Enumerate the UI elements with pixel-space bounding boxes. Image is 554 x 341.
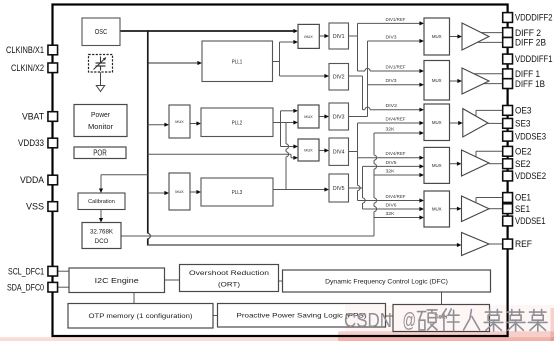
svg-text:Calibration: Calibration <box>88 199 115 205</box>
svg-text:MUX: MUX <box>304 148 313 152</box>
svg-text:DIFF 2B: DIFF 2B <box>515 37 546 48</box>
svg-text:@: @ <box>403 310 417 332</box>
svg-text:SDA_DFC0: SDA_DFC0 <box>7 281 44 292</box>
svg-text:VBAT: VBAT <box>22 111 44 122</box>
svg-text:I2C Engine: I2C Engine <box>95 276 139 285</box>
svg-text:CSDN: CSDN <box>344 310 392 332</box>
svg-text:DIV4/REF: DIV4/REF <box>386 194 406 199</box>
svg-text:CLKIN/X2: CLKIN/X2 <box>11 62 44 73</box>
svg-text:DIV6: DIV6 <box>386 203 398 208</box>
svg-text:SCL_DFC1: SCL_DFC1 <box>8 265 44 276</box>
svg-text:DIV3: DIV3 <box>386 35 398 40</box>
svg-text:POR: POR <box>93 149 107 158</box>
svg-text:MUX: MUX <box>304 35 313 39</box>
svg-text:MUX: MUX <box>175 120 184 124</box>
svg-text:SE2: SE2 <box>515 158 531 169</box>
svg-text:OTP memory (1 configuration): OTP memory (1 configuration) <box>89 313 193 320</box>
svg-text:MUX: MUX <box>432 207 442 212</box>
svg-text:VDDSE2: VDDSE2 <box>515 170 546 181</box>
svg-text:REF: REF <box>515 238 532 249</box>
svg-text:DIV2: DIV2 <box>333 75 345 81</box>
svg-text:OE1: OE1 <box>515 192 531 203</box>
svg-text:MUX: MUX <box>432 163 442 168</box>
svg-text:DIV4/REF: DIV4/REF <box>386 117 406 122</box>
svg-text:(ORT): (ORT) <box>218 282 240 289</box>
svg-text:VDDSE1: VDDSE1 <box>515 215 546 226</box>
svg-text:VDDDIFF1: VDDDIFF1 <box>515 53 553 64</box>
svg-text:VDDA: VDDA <box>20 174 45 185</box>
svg-text:DIV5: DIV5 <box>333 186 345 192</box>
svg-text:MUX: MUX <box>304 115 313 119</box>
svg-text:VSS: VSS <box>26 201 44 212</box>
svg-text:SE1: SE1 <box>515 203 530 214</box>
svg-text:32K: 32K <box>386 169 395 174</box>
svg-text:DIFF 1B: DIFF 1B <box>515 78 545 89</box>
svg-text:MUX: MUX <box>432 78 442 83</box>
svg-text:PLL1: PLL1 <box>232 59 243 65</box>
svg-text:VDD33: VDD33 <box>18 137 44 148</box>
svg-text:VDDSE3: VDDSE3 <box>515 130 546 141</box>
svg-text:DIV1/REF: DIV1/REF <box>386 65 406 70</box>
svg-text:Overshoot Reduction: Overshoot Reduction <box>189 270 269 277</box>
svg-text:32.768K: 32.768K <box>90 229 114 236</box>
svg-text:DIV1: DIV1 <box>333 34 345 40</box>
svg-text:DIV4/REF: DIV4/REF <box>386 151 406 156</box>
svg-text:DIV2: DIV2 <box>386 103 398 108</box>
svg-text:CLKINB/X1: CLKINB/X1 <box>6 44 44 55</box>
svg-text:MUX: MUX <box>432 120 442 125</box>
svg-text:OE3: OE3 <box>515 105 532 116</box>
svg-text:PLL3: PLL3 <box>232 190 243 196</box>
svg-text:DIV5: DIV5 <box>386 160 398 165</box>
svg-text:Monitor: Monitor <box>88 122 113 131</box>
svg-text:DIV3: DIV3 <box>333 114 345 120</box>
svg-text:DIV3: DIV3 <box>386 78 398 83</box>
svg-text:OSC: OSC <box>95 27 108 36</box>
svg-text:32K: 32K <box>386 211 395 216</box>
svg-text:MUX: MUX <box>175 190 184 194</box>
svg-text:OE2: OE2 <box>515 146 532 157</box>
svg-text:MUX: MUX <box>432 34 442 39</box>
svg-text:SE3: SE3 <box>515 118 531 129</box>
svg-text:VDDDIFF2: VDDDIFF2 <box>515 12 553 23</box>
svg-text:DIV4: DIV4 <box>333 150 345 156</box>
svg-text:Power: Power <box>91 110 110 119</box>
svg-text:Dynamic Frequency Control Logi: Dynamic Frequency Control Logic (DFC) <box>325 279 448 286</box>
svg-text:DIV1/REF: DIV1/REF <box>386 17 406 22</box>
svg-text:PLL2: PLL2 <box>232 120 243 126</box>
svg-text:DCO: DCO <box>95 238 109 245</box>
svg-text:32K: 32K <box>386 127 395 132</box>
